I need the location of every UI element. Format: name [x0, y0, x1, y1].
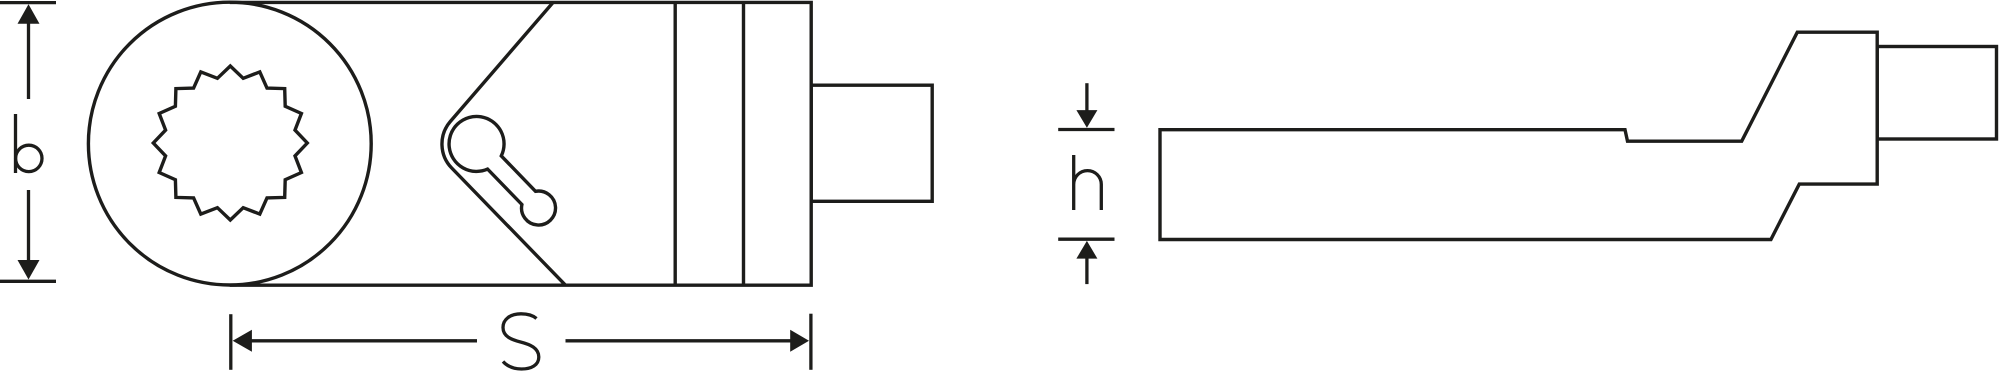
- ring outer circle (top view): [88, 2, 371, 285]
- label S: [503, 314, 539, 369]
- dimension b: top tick: [0, 1, 56, 4]
- dimension h: bottom tick: [1058, 238, 1114, 241]
- dimension h: upper arrow stem: [1085, 83, 1088, 110]
- side view outline: [1160, 32, 1877, 239]
- square tang (side view): [1877, 47, 1996, 140]
- dimension b: lower arrow stem: [27, 190, 30, 261]
- label h: [1074, 155, 1102, 210]
- dimension b: bottom tick: [0, 280, 56, 283]
- dimension S: right line segment: [566, 339, 792, 342]
- collar groove line 1: [674, 2, 677, 285]
- dimension S: right arrowhead: [790, 330, 809, 352]
- body outline (top view): top edge, right edge, bottom edge: [230, 2, 811, 285]
- spline profile (16-tooth serration): [153, 66, 307, 220]
- chevron (release collar edge) with rounded apex: [442, 2, 566, 285]
- dimension b: upper arrowhead: [18, 4, 40, 24]
- dimension S: left arrowhead: [233, 330, 252, 352]
- dimension b: upper arrow stem: [27, 23, 30, 99]
- dimension h: lower arrowhead: [1076, 241, 1097, 259]
- dimension S: left tick: [229, 314, 232, 370]
- collar groove line 2: [742, 2, 745, 285]
- dimension h: top tick: [1058, 128, 1114, 131]
- dimension h: upper arrowhead: [1076, 110, 1097, 128]
- square tang (top view): [811, 85, 932, 201]
- retaining pin (dumbbell outline): [449, 116, 555, 225]
- dimension S: right tick: [809, 314, 812, 370]
- dimension h: lower arrow stem: [1085, 258, 1088, 284]
- dimension S: left line segment: [251, 339, 477, 342]
- dimension b: lower arrowhead: [18, 260, 40, 280]
- label b: [16, 114, 43, 173]
